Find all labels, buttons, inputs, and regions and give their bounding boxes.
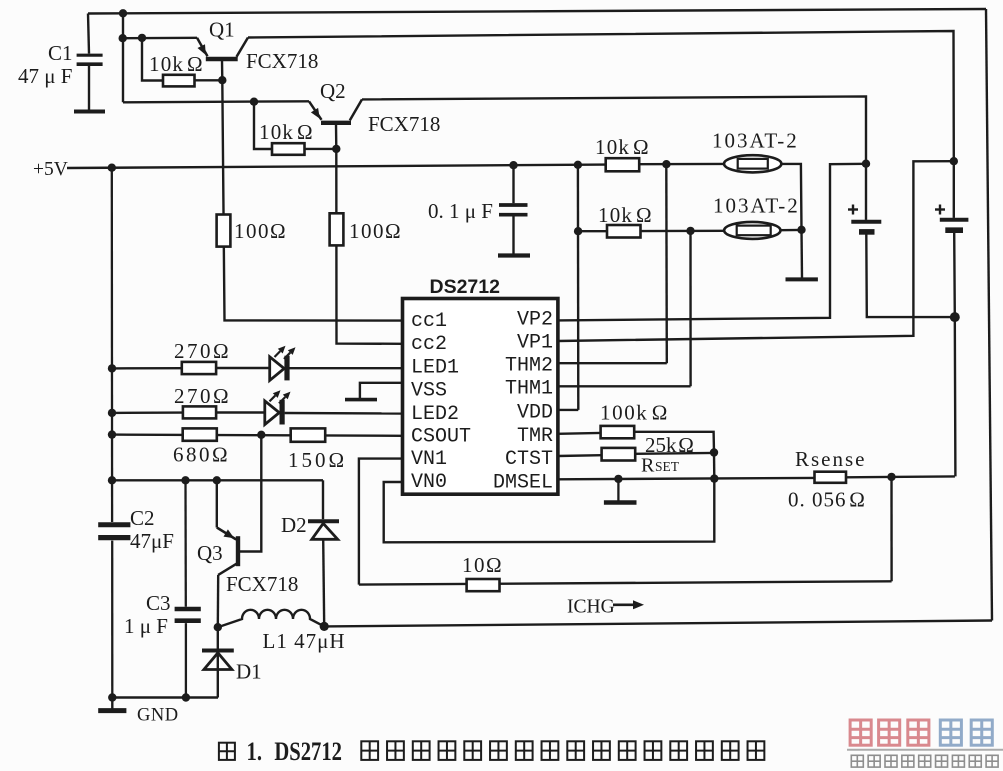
- node 0.1uF junction: [509, 161, 517, 169]
- node Q2 base junction: [332, 145, 340, 153]
- IC U1 DS2712 body: [403, 299, 558, 495]
- battery BT2 positive lead: [953, 161, 955, 218]
- svg-text:100Ω: 100Ω: [349, 219, 402, 243]
- capacitor C3 top lead: [184, 480, 187, 607]
- svg-text:103AT-2: 103AT-2: [713, 194, 800, 218]
- battery BT1 positive lead: [865, 164, 867, 220]
- node THM2 junction: [662, 160, 670, 168]
- resistor R-10k-Q2 left lead: [254, 102, 272, 149]
- wire THM1 riser: [689, 231, 691, 386]
- wire 10ohm row: [359, 581, 892, 584]
- wire right border: [986, 9, 992, 621]
- wire Q1 emitter rail: [123, 37, 197, 40]
- wire R-10k-Q2 to Q2 base: [305, 148, 337, 150]
- wire CSOUT row: [112, 435, 403, 436]
- svg-text:DS2712: DS2712: [274, 737, 342, 766]
- svg-text:1.: 1.: [247, 737, 263, 766]
- wire thermistor ground lead: [800, 230, 803, 278]
- node Q1 emitter-10k junction: [138, 34, 146, 42]
- capacitor C3 plates: [175, 607, 201, 612]
- svg-text:VDD: VDD: [517, 401, 553, 424]
- resistor R-10 body: [467, 579, 500, 591]
- wire Q1 collector rail: [248, 31, 954, 161]
- wire bottom ground rail: [112, 696, 218, 698]
- wire Rsense drop to 10ohm row: [890, 477, 892, 581]
- wire row480: [112, 479, 323, 481]
- transistor Q2 collector: [350, 99, 362, 120]
- wire thermistor-1 right lead: [781, 164, 801, 230]
- svg-text:GND: GND: [137, 706, 179, 726]
- battery BT1 plates: [851, 220, 881, 224]
- resistor R-150 body: [291, 428, 326, 441]
- transistor Q3 emitter lead: [216, 480, 218, 527]
- resistor Rsense body: [815, 472, 847, 483]
- ground bar below C1: [74, 110, 105, 114]
- svg-text:D1: D1: [236, 660, 262, 684]
- resistor R-10k-Q1 left lead: [142, 38, 163, 81]
- wire VDD riser: [577, 165, 580, 410]
- svg-text:10k Ω: 10k Ω: [598, 203, 653, 227]
- wire 10k-B left lead: [578, 230, 607, 232]
- svg-text:THM1: THM1: [505, 378, 553, 401]
- transistor Q1 emitter: [197, 38, 208, 56]
- svg-text:47 μ F: 47 μ F: [18, 64, 72, 88]
- svg-text:ICHG: ICHG: [567, 597, 615, 618]
- inductor L1: [218, 610, 324, 627]
- wire VSS to ground: [360, 383, 403, 398]
- wire LED2 to IC: [285, 412, 403, 415]
- node L1-D1 junction: [214, 623, 222, 631]
- capacitor 0.1uF lead: [512, 165, 514, 203]
- svg-text:VN0: VN0: [411, 471, 447, 494]
- wire R-270-2 to LED2: [216, 411, 266, 413]
- node Q1 base junction: [218, 76, 226, 84]
- wire left rail upper: [111, 168, 114, 522]
- svg-text:FCX718: FCX718: [246, 49, 318, 73]
- diode D2 triangle: [312, 523, 338, 539]
- resistor R-100-Q2 body: [330, 213, 344, 245]
- wire TMR lead: [558, 432, 601, 435]
- transistor Q1 base bar: [206, 57, 238, 61]
- svg-text:10k Ω: 10k Ω: [149, 52, 204, 76]
- wire top rail from C1 to right border: [88, 9, 986, 14]
- diode D1 triangle: [204, 653, 232, 670]
- wire R-10k-Q1 to Q1 base: [195, 79, 223, 81]
- svg-text:SET: SET: [655, 459, 680, 474]
- svg-text:10k Ω: 10k Ω: [259, 120, 314, 144]
- ground symbol GND: [111, 698, 113, 710]
- wire LED1 row left: [112, 367, 182, 370]
- node THM1 junction: [686, 227, 694, 235]
- transistor Q3 emitter arrow: [224, 529, 235, 538]
- svg-text:1 μ F: 1 μ F: [124, 614, 168, 638]
- resistor R-10k-Q2 body: [272, 143, 305, 155]
- svg-text:C1: C1: [48, 41, 73, 65]
- transistor Q3 base bar: [236, 536, 240, 566]
- wire CTST lead: [558, 454, 602, 457]
- wire left rail lower: [111, 541, 113, 698]
- node Q2 emitter-10k junction: [250, 98, 258, 106]
- diode D2 lower lead: [323, 539, 324, 626]
- svg-text:D2: D2: [281, 513, 307, 537]
- node LED2 rail junction: [108, 409, 116, 417]
- svg-text:VP1: VP1: [517, 332, 553, 355]
- wire Q1 base down to cc1: [222, 61, 403, 321]
- svg-text:R: R: [641, 455, 655, 477]
- capacitor C1 bottom lead: [88, 66, 90, 111]
- diode D2 upper lead: [322, 480, 324, 519]
- resistor R-100-Q1 body: [217, 215, 231, 247]
- wire 10k-A to thermistor-1: [639, 163, 724, 166]
- battery BT2 plates: [940, 218, 969, 222]
- wire VP1 to battery-2: [558, 161, 954, 341]
- node Q3 emitter junction: [213, 476, 221, 484]
- wire Q2 emitter rail: [123, 101, 309, 102]
- transistor Q1 collector: [237, 38, 249, 57]
- svg-text:VSS: VSS: [411, 379, 447, 402]
- svg-text:Q1: Q1: [209, 18, 235, 42]
- caption figure 1 DS2712 charger schematic: [219, 743, 235, 760]
- svg-text:150Ω: 150Ω: [288, 448, 347, 472]
- transistor Q3 collector diagonal: [218, 564, 237, 575]
- node top-rail junction: [119, 9, 127, 17]
- label battery-1 plus: [852, 205, 854, 215]
- watermark logo and slogan: [850, 720, 871, 745]
- LED D-LED1 symbol: [270, 357, 285, 381]
- node CTST junction: [710, 448, 718, 456]
- diode D2 cathode bar: [308, 519, 339, 523]
- wire DMSEL row: [558, 478, 815, 479]
- svg-text:0. 1 μ F: 0. 1 μ F: [428, 199, 493, 223]
- node 10k-B left junction: [574, 227, 582, 235]
- resistor R-100k body: [601, 426, 635, 438]
- svg-text:47μF: 47μF: [130, 529, 174, 553]
- svg-text:CTST: CTST: [505, 448, 553, 471]
- svg-text:TMR: TMR: [517, 425, 553, 448]
- svg-text:CSOUT: CSOUT: [411, 425, 471, 448]
- svg-text:103AT-2: 103AT-2: [712, 129, 799, 153]
- capacitor C1 plates: [77, 54, 103, 57]
- svg-text:cc1: cc1: [411, 310, 447, 333]
- LED D-LED2 arrows: [270, 396, 276, 402]
- svg-text:100Ω: 100Ω: [234, 219, 287, 243]
- wire VN1 to 10ohm row: [359, 459, 403, 585]
- wire C1 top lead: [88, 14, 89, 54]
- resistor R-10k-B body: [607, 225, 641, 238]
- capacitor 0.1uF plates: [499, 203, 528, 207]
- transistor Q2 base bar: [321, 121, 351, 125]
- svg-text:680Ω: 680Ω: [173, 443, 230, 467]
- svg-text:C2: C2: [130, 506, 155, 530]
- node Q1 emitter rail junction: [119, 34, 127, 42]
- svg-text:10k Ω: 10k Ω: [595, 135, 650, 159]
- wire VDD lead: [558, 409, 578, 411]
- node D2-L1-ICHG junction: [320, 622, 329, 631]
- node GND junction: [108, 693, 116, 701]
- wire drop from top rail: [122, 13, 124, 102]
- capacitor 0.1uF lower lead: [512, 217, 514, 254]
- wire riser to DMSEL: [713, 453, 716, 479]
- wire thermistor-2 right lead: [781, 229, 802, 232]
- node 680-150 junction: [257, 431, 265, 439]
- diode D1 cathode bar: [202, 649, 234, 653]
- LED D-LED2 symbol: [265, 401, 280, 425]
- svg-text:Q2: Q2: [320, 79, 346, 103]
- resistor R-680 body: [183, 428, 217, 440]
- svg-text:DMSEL: DMSEL: [493, 471, 553, 494]
- node C3 bottom junction: [182, 693, 190, 701]
- ground bar below 0.1uF: [498, 253, 530, 257]
- node CSOUT rail junction: [108, 430, 116, 438]
- wire bottom ICHG return: [324, 621, 992, 627]
- wire VP2 to battery-1: [558, 164, 866, 321]
- wire junction to Q3 base: [240, 435, 261, 552]
- transistor Q1 emitter arrow: [198, 44, 206, 55]
- ground bar thermistors: [786, 277, 818, 281]
- wire 100k to CTST riser: [634, 432, 714, 453]
- battery BT2 negative lead: [954, 232, 955, 476]
- svg-text:+5V: +5V: [33, 159, 68, 180]
- ground bar VSS: [345, 398, 377, 402]
- battery BT1 negative lead: [866, 234, 954, 318]
- ICHG arrow: [613, 603, 633, 606]
- svg-text:0. 056 Ω: 0. 056 Ω: [788, 488, 866, 512]
- node battery negative junction: [950, 312, 960, 322]
- svg-text:VN1: VN1: [411, 448, 447, 471]
- svg-text:DS2712: DS2712: [430, 276, 501, 298]
- node LED1 rail junction: [108, 364, 116, 372]
- node Rsense junction: [887, 473, 895, 481]
- svg-text:C3: C3: [146, 591, 171, 615]
- resistor R-25k body: [602, 448, 636, 461]
- svg-text:270Ω: 270Ω: [174, 339, 231, 363]
- node battery-2 positive: [950, 157, 958, 165]
- svg-text:cc2: cc2: [411, 333, 447, 356]
- wire VN0 loop: [384, 479, 715, 543]
- node VDD rail junction: [574, 161, 582, 169]
- wire THM1 lead: [558, 385, 691, 387]
- wire THM2 riser: [665, 164, 668, 363]
- svg-text:270Ω: 270Ω: [174, 384, 231, 408]
- node DMSEL-VN0 junction: [710, 474, 718, 482]
- node battery-1 positive: [862, 160, 870, 168]
- svg-text:FCX718: FCX718: [368, 112, 440, 136]
- node row480 rail junction: [108, 476, 116, 484]
- ground symbol DMSEL: [617, 479, 619, 501]
- transistor Q2 emitter arrow: [311, 108, 320, 119]
- wire R-270-1 to LED1: [216, 367, 270, 369]
- capacitor C3 bottom lead: [185, 623, 187, 697]
- transistor Q3 emitter diagonal: [217, 528, 236, 540]
- LED D-LED1 arrows: [275, 351, 281, 357]
- resistor R-270-2 body: [183, 406, 216, 418]
- svg-text:Rsense: Rsense: [795, 447, 867, 471]
- svg-text:Q3: Q3: [197, 541, 223, 565]
- svg-text:L1 47μH: L1 47μH: [263, 629, 346, 653]
- wire LED2 row left: [112, 411, 183, 414]
- transistor Q2 emitter: [309, 101, 322, 120]
- svg-text:THM2: THM2: [505, 355, 553, 378]
- svg-text:FCX718: FCX718: [226, 572, 298, 596]
- resistor R-10k-Q1 body: [163, 75, 195, 87]
- wire 10k-B to thermistor-2: [641, 230, 725, 233]
- wire Q2 base down to cc2: [336, 124, 403, 344]
- wire Rsense right: [846, 475, 955, 478]
- node +5V left-rail junction: [108, 164, 116, 172]
- svg-text:LED1: LED1: [411, 356, 459, 379]
- thermistor 103AT-2 lower: [724, 222, 780, 239]
- wire THM2 lead: [558, 362, 667, 364]
- capacitor C2 plates: [98, 522, 130, 527]
- svg-text:10Ω: 10Ω: [462, 553, 503, 577]
- resistor R-10k-A body: [606, 158, 640, 171]
- wire 25k to riser: [635, 452, 714, 455]
- wire Q2 collector rail: [362, 96, 866, 163]
- node C3 top junction: [181, 476, 189, 484]
- transistor Q3 collector lead: [217, 575, 220, 627]
- node thermistor junction: [797, 226, 805, 234]
- label battery-2 plus: [939, 205, 941, 215]
- svg-text:100k Ω: 100k Ω: [600, 401, 669, 425]
- wire LED1 to IC: [290, 367, 403, 369]
- diode D1 lead: [217, 627, 219, 697]
- thermistor 103AT-2 upper: [724, 155, 781, 172]
- resistor R-270-1 body: [182, 362, 216, 374]
- svg-text:LED2: LED2: [411, 403, 459, 426]
- wire +5V rail: [67, 165, 606, 168]
- node DMSEL ground junction: [614, 475, 622, 483]
- svg-text:VP2: VP2: [517, 308, 553, 331]
